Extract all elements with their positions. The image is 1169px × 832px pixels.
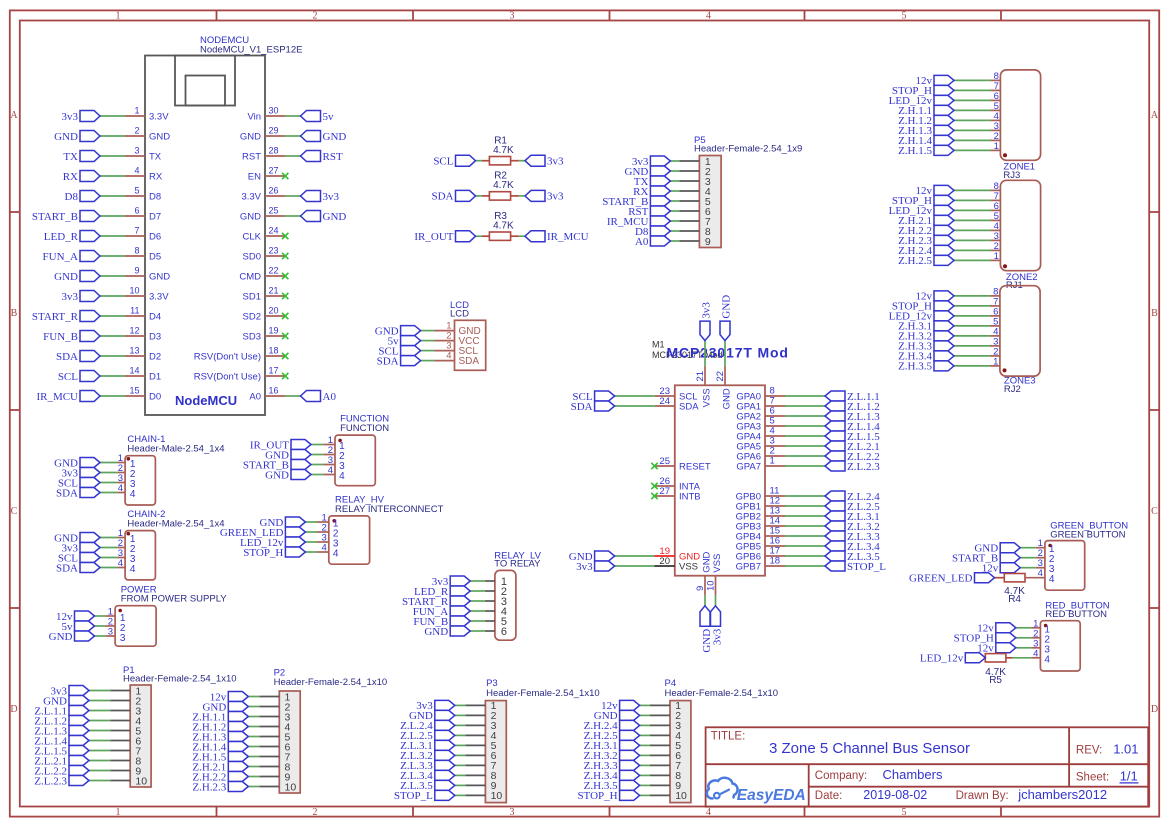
net flag 3v3	[700, 302, 713, 341]
wire	[470, 580, 485, 582]
wire	[470, 630, 485, 632]
wire	[455, 774, 466, 776]
wire	[100, 295, 125, 297]
ZONE3 pin 5	[990, 316, 1000, 327]
wire	[305, 531, 317, 533]
svg-text:22: 22	[715, 371, 726, 382]
NodeMCU pin 21 SD1	[243, 286, 285, 303]
svg-text:STOP_L: STOP_L	[847, 561, 886, 573]
svg-text:2: 2	[313, 807, 318, 818]
wire	[640, 714, 650, 716]
svg-text:5: 5	[134, 186, 139, 196]
P4 pin 8	[650, 770, 681, 782]
title text 3 Zone 5 Channel Bus Sensor	[769, 740, 970, 757]
connector ZONE3 RJ2	[1000, 286, 1040, 395]
svg-text:4: 4	[339, 471, 345, 482]
svg-text:STOP_L: STOP_L	[394, 790, 433, 802]
pin-1 dot	[1003, 368, 1007, 372]
net flag Z.H.2.4	[584, 720, 640, 732]
wire	[100, 235, 125, 237]
net flag GND	[265, 449, 311, 461]
net flag SCL	[58, 552, 100, 564]
wire	[476, 160, 482, 162]
RELAY_HV pin 3	[317, 533, 339, 550]
net flag STOP_H	[892, 301, 954, 313]
svg-text:C: C	[11, 506, 18, 517]
wire	[455, 784, 466, 786]
svg-text:10: 10	[135, 775, 147, 787]
svg-text:Company:: Company:	[815, 770, 867, 782]
svg-text:16: 16	[269, 386, 279, 396]
POWER pin 1	[105, 607, 126, 624]
svg-text:4: 4	[1049, 574, 1055, 585]
wire	[785, 515, 825, 517]
pin-1 dot	[1003, 153, 1007, 157]
svg-text:GND: GND	[424, 626, 448, 638]
wire	[954, 129, 990, 131]
svg-text:27: 27	[269, 166, 279, 176]
wire	[100, 215, 125, 217]
net flag Z.H.2.3	[192, 781, 248, 793]
pin-1 dot	[1048, 544, 1052, 548]
svg-text:SCL: SCL	[433, 156, 453, 168]
wire	[285, 155, 301, 157]
wire	[954, 209, 990, 211]
svg-text:TX: TX	[63, 151, 78, 163]
svg-text:20: 20	[659, 556, 670, 567]
resistor R1 4.7K	[482, 135, 519, 165]
RELAY_LV pin 1	[485, 576, 507, 588]
net flag GND	[43, 695, 89, 707]
svg-text:GND: GND	[54, 131, 78, 143]
svg-text:3v3: 3v3	[547, 191, 564, 203]
MCP pin 3 GPA5	[736, 436, 785, 453]
net flag Z.H.2.2	[898, 225, 954, 237]
svg-text:A0: A0	[635, 236, 649, 248]
P5 pin 9	[679, 236, 711, 248]
net flag GND	[301, 211, 347, 223]
net flag 3v3	[62, 111, 101, 123]
net flag 12v	[916, 291, 955, 303]
net flag Z.H.1.1	[192, 711, 248, 723]
svg-text:MCP23017T Mod: MCP23017T Mod	[667, 345, 789, 361]
P3 pin 7	[465, 760, 496, 772]
wire	[640, 724, 650, 726]
svg-text:RST: RST	[242, 152, 261, 163]
net flag Z.H.2.1	[192, 761, 248, 773]
NodeMCU pin 12 D3	[125, 326, 161, 343]
no-connect X	[651, 483, 657, 489]
P2 pin 7	[259, 751, 290, 763]
net flag Z.L.2.5	[825, 501, 880, 513]
wire	[670, 200, 679, 202]
net flag 5v	[388, 335, 421, 347]
svg-text:Z.L.2.3: Z.L.2.3	[847, 461, 880, 473]
wire	[421, 330, 435, 332]
wire	[100, 135, 125, 137]
svg-text:Z.H.3.5: Z.H.3.5	[898, 361, 932, 373]
wire	[785, 535, 825, 537]
wire	[785, 565, 825, 567]
net flag Z.H.1.4	[192, 741, 248, 753]
NodeMCU pin 14 D1	[125, 366, 161, 383]
wire	[89, 740, 110, 742]
net flag Z.H.3.2	[898, 331, 954, 343]
net flag 3v3	[711, 606, 724, 646]
wire	[455, 704, 466, 706]
IC M1 MCP23017T Mod	[652, 340, 789, 576]
svg-text:GND: GND	[240, 132, 261, 143]
svg-text:18: 18	[269, 346, 279, 356]
svg-text:GND: GND	[149, 272, 170, 283]
net flag Z.H.3.1	[898, 321, 954, 333]
wire	[100, 567, 117, 569]
net flag 3v3	[525, 190, 564, 202]
svg-text:17: 17	[269, 366, 279, 376]
MCP pin 10 VSS (bottom)	[706, 554, 724, 595]
svg-text:CMD: CMD	[239, 272, 261, 283]
wire	[95, 635, 106, 637]
svg-text:1: 1	[116, 807, 121, 818]
GREEN_BUTTON pin 4	[1025, 568, 1055, 585]
ZONE3 pin 2	[990, 346, 1000, 357]
rev value 1.01	[1113, 741, 1138, 756]
P5 pin 6	[679, 206, 711, 218]
P1 pin 6	[110, 735, 141, 747]
svg-text:29: 29	[269, 126, 279, 136]
svg-text:3v3: 3v3	[712, 628, 724, 645]
svg-text:4: 4	[706, 807, 711, 818]
net flag Z.H.2.2	[192, 771, 248, 783]
svg-text:IR_OUT: IR_OUT	[414, 231, 453, 243]
svg-text:GND: GND	[323, 211, 347, 223]
svg-text:4.7K: 4.7K	[493, 145, 514, 156]
LCD connector	[450, 300, 486, 371]
wire	[476, 195, 482, 197]
RELAY_LV pin 3	[485, 596, 507, 608]
svg-text:NodeMCU_V1_ESP12E: NodeMCU_V1_ESP12E	[200, 44, 302, 55]
wire	[100, 195, 125, 197]
P1 pin 8	[110, 755, 141, 767]
NodeMCU pin 27 EN	[248, 166, 285, 183]
P5 pin 4	[679, 186, 711, 198]
MCP pin 19 GND	[655, 546, 701, 563]
svg-text:Drawn By:: Drawn By:	[956, 790, 1009, 802]
ZONE3 pin 4	[990, 326, 1000, 337]
wire	[455, 754, 466, 756]
net flag Z.H.1.4	[898, 135, 954, 147]
pin-1 dot	[127, 532, 131, 536]
net flag Z.L.2.4	[400, 720, 455, 732]
svg-text:RED BUTTON: RED BUTTON	[1045, 609, 1107, 620]
P1 pin 4	[110, 715, 141, 727]
svg-text:GND: GND	[149, 132, 170, 143]
svg-text:STOP_H: STOP_H	[577, 790, 617, 802]
CHAIN-2 pin 2	[117, 538, 135, 555]
wire	[670, 220, 679, 222]
RELAY_LV pin 6	[485, 626, 507, 638]
net flag 3v3	[62, 291, 101, 303]
net flag LED_12v	[889, 311, 954, 323]
net flag FUN_B	[43, 331, 100, 343]
net flag GND	[569, 551, 615, 563]
net flag STOP_H	[954, 633, 1016, 645]
svg-text:Header-Female-2.54_1x9: Header-Female-2.54_1x9	[694, 144, 802, 155]
P3 pin 6	[465, 750, 496, 762]
header RELAY_LV TO RELAY	[494, 550, 541, 640]
wire	[100, 462, 117, 464]
net flag 5v	[62, 621, 95, 633]
net flag D8	[635, 226, 670, 238]
net flag 12v	[977, 623, 1016, 635]
svg-text:IR_MCU: IR_MCU	[36, 391, 78, 403]
wire	[640, 754, 650, 756]
svg-text:VSS: VSS	[679, 562, 698, 573]
net flag SCL	[433, 155, 475, 167]
net flag 3v3	[525, 155, 564, 167]
wire	[248, 726, 259, 728]
net flag GND	[974, 543, 1020, 555]
svg-text:3: 3	[134, 146, 139, 156]
RED_BUTTON pin 1	[1031, 618, 1050, 635]
wire	[100, 275, 125, 277]
svg-text:GND: GND	[702, 551, 713, 572]
P4 pin 2	[650, 710, 681, 722]
pin-1 dot	[1044, 624, 1048, 628]
net flag 3v3	[416, 700, 455, 712]
net flag STOP_L	[394, 790, 455, 802]
wire	[285, 395, 301, 397]
MCP pin 13 GPB2	[736, 506, 785, 523]
svg-text:30: 30	[269, 106, 279, 116]
connector ZONE1 RJ3	[1000, 70, 1040, 181]
svg-text:9: 9	[134, 266, 139, 276]
POWER pin 2	[105, 617, 126, 634]
svg-text:SDA: SDA	[459, 356, 480, 367]
wire	[248, 756, 259, 758]
wire	[305, 521, 317, 523]
wire	[670, 180, 679, 182]
ZONE3 pin 8	[990, 286, 1000, 297]
svg-text:EasyEDA: EasyEDA	[737, 787, 806, 804]
no-connect X	[282, 313, 288, 319]
ZONE3 pin 1	[990, 356, 1000, 367]
svg-text:M1: M1	[652, 340, 665, 350]
FUNCTION pin 3	[323, 455, 345, 472]
svg-text:D5: D5	[149, 252, 161, 263]
MCP pin 1 GPA7	[736, 456, 785, 473]
P5 pin 1	[679, 156, 711, 168]
svg-text:4: 4	[322, 543, 327, 554]
net flag 5v	[301, 111, 335, 123]
wire	[100, 472, 117, 474]
svg-text:13: 13	[129, 346, 139, 356]
svg-text:Header-Male-2.54_1x4: Header-Male-2.54_1x4	[127, 444, 224, 455]
svg-text:3 Zone 5 Channel Bus Sensor: 3 Zone 5 Channel Bus Sensor	[769, 740, 970, 757]
net flag RST	[628, 206, 670, 218]
no-connect X	[282, 373, 288, 379]
net flag A0	[301, 391, 337, 403]
net flag 12v	[916, 185, 955, 197]
NodeMCU pin 15 D0	[125, 386, 161, 403]
net flag Z.L.1.1	[825, 391, 880, 403]
wire	[785, 495, 825, 497]
wire	[100, 395, 125, 397]
wire	[954, 199, 990, 201]
MCP pin 21 VSS (top)	[695, 367, 713, 408]
net flag 12v	[977, 643, 1016, 655]
net flag 3v3	[62, 467, 101, 479]
net flag Z.H.1.2	[192, 721, 248, 733]
RELAY_HV pin 2	[317, 523, 339, 540]
wire	[100, 255, 125, 257]
MCP pin 4 GPA4	[736, 426, 785, 443]
wire	[100, 375, 125, 377]
ZONE3 pin 7	[990, 296, 1000, 307]
net flag Z.H.1.3	[192, 731, 248, 743]
NodeMCU pin 13 D2	[125, 346, 161, 363]
svg-text:FROM POWER SUPPLY: FROM POWER SUPPLY	[121, 594, 228, 605]
net flag GND	[594, 710, 640, 722]
P2 pin 1	[259, 691, 290, 703]
net flag RX	[633, 186, 670, 198]
svg-text:GREEN_LED: GREEN_LED	[909, 573, 973, 585]
wire	[421, 340, 435, 342]
wire	[954, 355, 990, 357]
ZONE1 pin 8	[990, 71, 1000, 82]
wire	[954, 345, 990, 347]
resistor R3 4.7K	[482, 211, 519, 241]
wire	[954, 325, 990, 327]
svg-text:START_B: START_B	[32, 211, 78, 223]
wire	[954, 79, 990, 81]
P1 pin 7	[110, 745, 141, 757]
net flag Z.H.1.3	[898, 125, 954, 137]
P4 pin 5	[650, 740, 681, 752]
svg-text:24: 24	[659, 396, 670, 407]
svg-text:2: 2	[313, 11, 318, 22]
svg-text:7: 7	[134, 226, 139, 236]
svg-text:Vin: Vin	[247, 112, 261, 123]
NodeMCU pin 29 GND	[240, 126, 285, 143]
svg-text:Header-Female-2.54_1x10: Header-Female-2.54_1x10	[123, 674, 237, 685]
svg-text:SDA: SDA	[56, 487, 78, 499]
net flag GREEN_LED	[909, 573, 995, 585]
header P4 Header-Female-2.54_1x10	[665, 678, 779, 803]
wire	[305, 541, 317, 543]
wire	[95, 615, 106, 617]
svg-text:1: 1	[993, 356, 998, 367]
header P1 Header-Female-2.54_1x10	[123, 665, 237, 787]
wire	[519, 160, 525, 162]
P2 pin 6	[259, 741, 290, 753]
MCP pin 16 GPB5	[736, 536, 785, 553]
no-connect X	[282, 173, 288, 179]
net flag Z.L.3.3	[400, 760, 455, 772]
svg-text:RSV(Don't Use): RSV(Don't Use)	[194, 372, 261, 383]
NodeMCU pin 5 D8	[125, 186, 161, 203]
svg-text:D: D	[1151, 704, 1158, 715]
svg-text:D8: D8	[149, 192, 161, 203]
net flag TX	[63, 151, 100, 163]
net flag Z.H.1.5	[898, 145, 954, 157]
svg-text:21: 21	[695, 371, 706, 382]
svg-text:SDA: SDA	[571, 401, 593, 413]
wire	[670, 190, 679, 192]
svg-text:6: 6	[134, 206, 139, 216]
svg-text:D6: D6	[149, 232, 161, 243]
wire	[954, 295, 990, 297]
net flag SDA	[56, 562, 100, 574]
RED_BUTTON pin 4	[1031, 648, 1050, 665]
wire	[670, 230, 679, 232]
svg-text:GND: GND	[265, 469, 289, 481]
NodeMCU pin 11 D4	[125, 306, 161, 323]
wire	[100, 557, 117, 559]
net flag 3v3	[632, 156, 671, 168]
MCP pin 15 GPB4	[736, 526, 785, 543]
ZONE1 pin 7	[990, 81, 1000, 92]
wire	[89, 780, 110, 782]
net flag Z.L.2.1	[825, 441, 880, 453]
net flag Z.H.3.4	[898, 351, 954, 363]
net flag LED_12v	[889, 95, 954, 107]
wire	[285, 135, 301, 137]
MCP pin 24 SDA	[655, 396, 699, 413]
pin-1 dot	[127, 457, 131, 461]
svg-text:Chambers: Chambers	[883, 767, 943, 782]
svg-text:4.7K: 4.7K	[493, 180, 514, 191]
svg-text:3.3V: 3.3V	[149, 292, 169, 303]
MCP pin 23 SCL	[655, 386, 698, 403]
net flag Z.H.2.4	[898, 245, 954, 257]
svg-text:RJ2: RJ2	[1004, 384, 1021, 395]
resistor R4 4.7K	[995, 574, 1026, 605]
sheet value 1/1	[1120, 768, 1139, 783]
svg-text:10: 10	[706, 580, 717, 591]
RELAY_HV pin 1	[317, 513, 339, 530]
wire	[785, 405, 825, 407]
GREEN_BUTTON pin 2	[1036, 548, 1055, 565]
svg-text:START_R: START_R	[32, 311, 79, 323]
POWER pin 3	[105, 627, 126, 644]
svg-text:FUN_A: FUN_A	[43, 251, 79, 263]
svg-text:EN: EN	[248, 172, 261, 183]
net flag Z.H.3.5	[584, 780, 640, 792]
svg-text:GND: GND	[721, 295, 733, 319]
NodeMCU pin 7 D6	[125, 226, 161, 243]
net flag LED_R	[44, 231, 100, 243]
wire	[285, 215, 301, 217]
wire	[100, 175, 125, 177]
net flag GND	[375, 325, 421, 337]
net flag START_B	[952, 553, 1020, 565]
net flag START_B	[243, 459, 311, 471]
NodeMCU pin 20 SD2	[243, 306, 285, 323]
net flag GND	[49, 631, 95, 643]
P3 pin 3	[465, 720, 496, 732]
net flag GND	[54, 457, 100, 469]
wire	[455, 794, 466, 796]
svg-text:FUNCTION: FUNCTION	[340, 423, 389, 434]
svg-text:10: 10	[129, 286, 139, 296]
wire	[421, 350, 435, 352]
NodeMCU pin 3 TX	[125, 146, 162, 163]
svg-text:TO RELAY: TO RELAY	[494, 559, 541, 570]
wire	[89, 750, 110, 752]
svg-text:C: C	[1151, 506, 1158, 517]
header POWER FROM POWER SUPPLY	[115, 584, 227, 646]
